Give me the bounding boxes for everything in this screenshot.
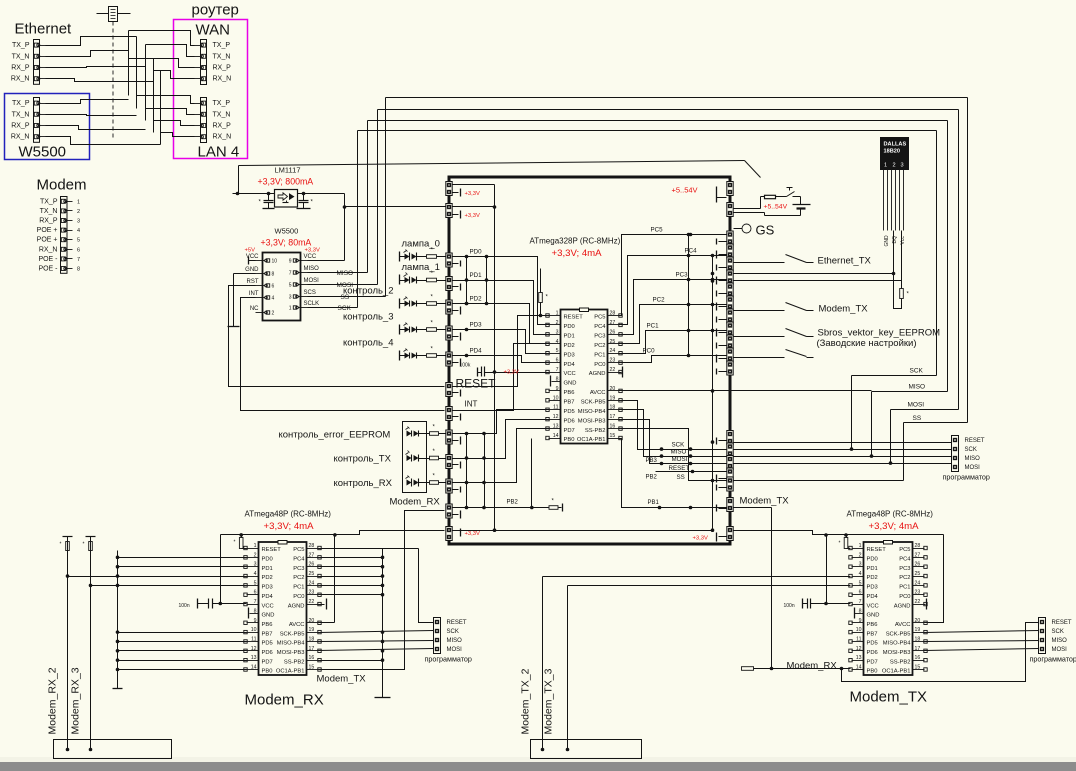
svg-text:+5..54V: +5..54V: [672, 186, 698, 195]
svg-text:2: 2: [556, 320, 559, 326]
svg-text:+5V: +5V: [245, 248, 256, 254]
svg-text:RESET: RESET: [669, 465, 690, 472]
svg-text:RESET: RESET: [564, 315, 584, 321]
svg-text:MISO-PB4: MISO-PB4: [277, 641, 305, 647]
svg-text:+3,3V: +3,3V: [465, 531, 480, 537]
svg-text:GS: GS: [756, 223, 775, 238]
svg-text:12: 12: [856, 646, 862, 652]
svg-text:100k: 100k: [460, 363, 471, 369]
svg-text:INT: INT: [249, 291, 259, 297]
svg-text:18: 18: [915, 636, 921, 642]
svg-text:27: 27: [309, 552, 315, 558]
svg-text:Modem_RX: Modem_RX: [245, 692, 324, 709]
svg-text:RESET: RESET: [447, 620, 467, 626]
svg-text:7: 7: [556, 367, 559, 373]
svg-text:OC1A-PB1: OC1A-PB1: [577, 437, 606, 443]
svg-text:PC2: PC2: [653, 297, 666, 304]
svg-text:PD4: PD4: [262, 594, 274, 600]
svg-text:16: 16: [915, 655, 921, 661]
svg-text:*: *: [60, 542, 62, 548]
svg-text:PD2: PD2: [564, 343, 575, 349]
svg-text:POE -: POE -: [38, 266, 58, 273]
svg-text:PB0: PB0: [867, 669, 878, 675]
svg-text:27: 27: [610, 320, 616, 326]
svg-text:3: 3: [77, 219, 80, 225]
svg-text:5: 5: [77, 238, 80, 244]
svg-text:MOSI: MOSI: [447, 647, 463, 653]
svg-text:GND: GND: [867, 613, 880, 619]
svg-text:14: 14: [553, 433, 559, 439]
svg-text:VCC: VCC: [262, 603, 274, 609]
svg-text:+5..54V: +5..54V: [764, 204, 788, 211]
svg-text:11: 11: [251, 636, 256, 642]
svg-text:RX_N: RX_N: [213, 76, 232, 83]
svg-text:13: 13: [251, 655, 257, 661]
svg-text:SCK-PB5: SCK-PB5: [280, 631, 305, 637]
svg-text:4: 4: [77, 228, 80, 234]
svg-text:AVCC: AVCC: [590, 390, 606, 396]
svg-text:Ethernet: Ethernet: [15, 21, 73, 38]
svg-text:+3,3V; 80mA: +3,3V; 80mA: [261, 238, 312, 248]
svg-text:SCK: SCK: [910, 368, 924, 375]
svg-text:PB0: PB0: [262, 669, 273, 675]
svg-text:RX_P: RX_P: [11, 123, 30, 130]
svg-text:контроль_3: контроль_3: [343, 312, 394, 323]
svg-text:лампа_0: лампа_0: [402, 239, 440, 250]
svg-text:7: 7: [254, 599, 257, 605]
svg-text:AVCC: AVCC: [289, 622, 305, 628]
svg-text:2: 2: [272, 311, 275, 317]
svg-text:контроль_TX: контроль_TX: [334, 454, 392, 465]
svg-text:Modem_RX: Modem_RX: [787, 661, 838, 672]
svg-text:6: 6: [556, 358, 559, 364]
svg-text:ATmega48P (RC-8MHz): ATmega48P (RC-8MHz): [847, 510, 934, 519]
svg-text:26: 26: [610, 329, 616, 335]
svg-text:+3,3V: +3,3V: [504, 370, 519, 376]
svg-text:25: 25: [309, 571, 315, 577]
svg-text:RESET: RESET: [867, 547, 887, 553]
svg-text:17: 17: [915, 646, 921, 652]
svg-text:PD2: PD2: [262, 575, 273, 581]
svg-text:SS-PB2: SS-PB2: [284, 659, 305, 665]
svg-text:AGND: AGND: [288, 603, 305, 609]
svg-text:PD1: PD1: [564, 334, 575, 340]
svg-text:7: 7: [859, 599, 862, 605]
svg-text:8: 8: [254, 608, 257, 614]
svg-text:AGND: AGND: [894, 603, 911, 609]
svg-text:SS-PB2: SS-PB2: [585, 428, 606, 434]
svg-text:12: 12: [553, 414, 559, 420]
svg-text:PC1: PC1: [647, 323, 660, 330]
svg-text:2: 2: [893, 163, 896, 169]
svg-text:100n: 100n: [784, 603, 795, 609]
svg-text:PD4: PD4: [470, 348, 483, 355]
svg-text:SCK-PB5: SCK-PB5: [581, 400, 606, 406]
svg-text:POE -: POE -: [38, 256, 58, 263]
svg-text:SCK: SCK: [965, 447, 977, 453]
svg-text:SCK: SCK: [1052, 629, 1064, 635]
svg-text:TX_N: TX_N: [12, 53, 30, 60]
svg-text:1: 1: [289, 306, 292, 312]
svg-text:PC4: PC4: [293, 557, 305, 563]
svg-text:8: 8: [859, 608, 862, 614]
svg-text:26: 26: [309, 562, 315, 568]
svg-text:23: 23: [610, 358, 616, 364]
svg-text:SS: SS: [913, 415, 922, 422]
svg-text:4: 4: [556, 339, 559, 345]
svg-text:+3,3V; 800mA: +3,3V; 800mA: [258, 177, 314, 187]
svg-text:SCK: SCK: [447, 629, 459, 635]
svg-text:7: 7: [77, 257, 80, 263]
svg-text:PD3: PD3: [564, 352, 575, 358]
svg-text:OC1A-PB1: OC1A-PB1: [276, 669, 305, 675]
svg-text:PD2: PD2: [470, 296, 483, 303]
svg-text:PD6: PD6: [564, 418, 575, 424]
svg-text:PC0: PC0: [643, 348, 656, 355]
svg-text:NC: NC: [250, 306, 259, 312]
svg-text:2: 2: [859, 552, 862, 558]
svg-text:18: 18: [309, 636, 315, 642]
svg-text:*: *: [839, 541, 841, 547]
svg-text:POE +: POE +: [37, 237, 58, 244]
svg-text:PD0: PD0: [564, 324, 575, 330]
svg-text:24: 24: [610, 348, 616, 354]
svg-text:лампа_1: лампа_1: [402, 262, 440, 273]
svg-text:16: 16: [309, 655, 315, 661]
svg-text:контроль_error_EEPROM: контроль_error_EEPROM: [279, 430, 391, 441]
svg-text:MISO: MISO: [304, 266, 320, 272]
svg-text:программатор: программатор: [425, 655, 472, 664]
svg-text:LM1117: LM1117: [275, 166, 301, 175]
svg-text:(Заводские настройки): (Заводские настройки): [817, 338, 917, 349]
svg-text:Sbros_vektor_key_EEPROM: Sbros_vektor_key_EEPROM: [818, 328, 941, 339]
svg-text:PD3: PD3: [470, 322, 483, 329]
svg-text:контроль_RX: контроль_RX: [334, 478, 393, 489]
svg-text:PC1: PC1: [899, 585, 910, 591]
svg-text:SS: SS: [677, 474, 685, 481]
svg-text:ATmega48P (RC-8MHz): ATmega48P (RC-8MHz): [245, 510, 332, 519]
svg-text:PD1: PD1: [867, 566, 878, 572]
svg-text:2: 2: [254, 552, 257, 558]
svg-text:Modem_TX: Modem_TX: [850, 689, 928, 706]
svg-text:SCK-PB5: SCK-PB5: [886, 631, 911, 637]
svg-text:1: 1: [556, 311, 559, 317]
svg-text:15: 15: [610, 433, 616, 439]
svg-text:программатор: программатор: [943, 473, 990, 482]
svg-text:3: 3: [901, 163, 904, 169]
svg-text:1: 1: [884, 163, 887, 169]
svg-text:RX_N: RX_N: [11, 134, 30, 141]
svg-text:PD5: PD5: [262, 641, 273, 647]
svg-text:4: 4: [859, 571, 862, 577]
svg-text:+3,3V; 4mA: +3,3V; 4mA: [552, 248, 603, 259]
svg-text:28: 28: [309, 543, 315, 549]
svg-text:Modem_RX: Modem_RX: [390, 497, 441, 508]
svg-text:PC3: PC3: [676, 272, 689, 279]
svg-text:14: 14: [251, 665, 257, 671]
svg-text:RX_P: RX_P: [213, 65, 232, 72]
svg-text:PD4: PD4: [564, 362, 576, 368]
svg-text:PB7: PB7: [262, 631, 273, 637]
svg-text:10: 10: [272, 259, 278, 265]
svg-text:TX_N: TX_N: [213, 53, 231, 60]
svg-text:OC1A-PB1: OC1A-PB1: [882, 669, 911, 675]
svg-text:RESET: RESET: [456, 377, 497, 391]
svg-text:PD5: PD5: [867, 641, 878, 647]
svg-text:5: 5: [556, 348, 559, 354]
svg-text:RX_P: RX_P: [39, 218, 58, 225]
svg-text:POE +: POE +: [37, 227, 58, 234]
svg-text:PD0: PD0: [470, 249, 483, 256]
svg-text:PB1: PB1: [648, 500, 660, 506]
svg-text:VCC: VCC: [867, 603, 879, 609]
svg-text:22: 22: [309, 599, 315, 605]
svg-text:PB7: PB7: [564, 400, 575, 406]
svg-text:100n: 100n: [179, 603, 190, 609]
svg-text:17: 17: [309, 646, 315, 652]
svg-text:14: 14: [856, 665, 862, 671]
svg-text:3: 3: [859, 562, 862, 568]
svg-text:MISO: MISO: [337, 270, 354, 277]
svg-text:13: 13: [856, 655, 862, 661]
svg-text:23: 23: [309, 590, 315, 596]
svg-text:28: 28: [915, 543, 921, 549]
svg-text:10: 10: [856, 627, 862, 633]
svg-text:9: 9: [289, 259, 292, 265]
svg-text:MISO: MISO: [965, 456, 981, 462]
svg-text:18: 18: [610, 405, 616, 411]
svg-text:PD7: PD7: [262, 659, 273, 665]
svg-text:PB6: PB6: [262, 622, 273, 628]
svg-text:MOSI-PB3: MOSI-PB3: [277, 650, 305, 656]
svg-text:AGND: AGND: [589, 371, 606, 377]
svg-text:TX_P: TX_P: [213, 42, 231, 49]
svg-text:24: 24: [309, 580, 315, 586]
svg-text:3: 3: [254, 562, 257, 568]
svg-text:20: 20: [915, 618, 921, 624]
svg-text:GND: GND: [245, 267, 259, 273]
svg-text:6: 6: [77, 247, 80, 253]
svg-text:PC1: PC1: [293, 585, 304, 591]
svg-text:PD6: PD6: [867, 650, 878, 656]
svg-text:22: 22: [915, 599, 921, 605]
svg-text:+3,3V: +3,3V: [465, 213, 480, 219]
svg-text:MOSI-PB3: MOSI-PB3: [883, 650, 911, 656]
svg-text:PD2: PD2: [867, 575, 878, 581]
svg-text:PC3: PC3: [899, 566, 910, 572]
svg-text:PD7: PD7: [564, 428, 575, 434]
svg-text:22: 22: [610, 367, 616, 373]
svg-text:TX_P: TX_P: [12, 42, 30, 49]
svg-text:PC5: PC5: [651, 227, 664, 234]
svg-text:1: 1: [254, 543, 257, 549]
svg-text:3: 3: [556, 329, 559, 335]
svg-text:7: 7: [289, 271, 292, 277]
svg-text:PC0: PC0: [293, 594, 304, 600]
svg-text:PC0: PC0: [899, 594, 910, 600]
svg-text:PB7: PB7: [867, 631, 878, 637]
svg-text:RESET: RESET: [262, 547, 282, 553]
svg-text:PC0: PC0: [594, 362, 605, 368]
svg-text:ATmega328P (RC-8MHz): ATmega328P (RC-8MHz): [530, 237, 621, 246]
svg-text:TX_P: TX_P: [40, 198, 58, 205]
svg-text:INT: INT: [465, 400, 478, 409]
svg-text:6: 6: [254, 590, 257, 596]
svg-text:TX_P: TX_P: [213, 100, 231, 107]
svg-text:WAN: WAN: [196, 22, 230, 39]
svg-text:4: 4: [254, 571, 257, 577]
svg-text:18B20: 18B20: [884, 149, 900, 155]
svg-text:MOSI: MOSI: [1052, 647, 1068, 653]
svg-text:программатор: программатор: [1030, 655, 1076, 664]
svg-text:PC4: PC4: [594, 324, 606, 330]
svg-text:25: 25: [915, 571, 921, 577]
svg-text:VCC: VCC: [564, 371, 576, 377]
svg-text:6: 6: [272, 284, 275, 290]
svg-text:MOSI: MOSI: [672, 456, 688, 463]
svg-text:9: 9: [254, 618, 257, 624]
svg-text:11: 11: [856, 636, 861, 642]
svg-text:PC5: PC5: [293, 547, 304, 553]
svg-text:26: 26: [915, 562, 921, 568]
svg-text:PD3: PD3: [867, 585, 878, 591]
svg-text:Modem: Modem: [37, 177, 87, 194]
svg-text:GND: GND: [564, 381, 577, 387]
svg-text:PB3: PB3: [646, 458, 658, 464]
svg-text:TX_N: TX_N: [40, 208, 58, 215]
svg-text:19: 19: [915, 627, 921, 633]
svg-text:+3,3V: +3,3V: [693, 536, 708, 542]
svg-text:11: 11: [553, 405, 558, 411]
svg-text:TX_P: TX_P: [12, 100, 30, 107]
svg-text:Modem_TX: Modem_TX: [819, 304, 869, 315]
svg-text:MISO-PB4: MISO-PB4: [883, 641, 911, 647]
svg-text:3: 3: [289, 295, 292, 301]
svg-text:RESET: RESET: [965, 438, 985, 444]
svg-text:RX_P: RX_P: [213, 123, 232, 130]
svg-text:RX_P: RX_P: [11, 65, 30, 72]
svg-text:+3,3V: +3,3V: [465, 191, 480, 197]
svg-text:8: 8: [272, 272, 275, 278]
svg-text:Ethernet_TX: Ethernet_TX: [818, 256, 872, 267]
svg-text:RX_N: RX_N: [39, 246, 58, 253]
svg-text:PC3: PC3: [594, 334, 605, 340]
svg-text:+3,3V; 4mA: +3,3V; 4mA: [869, 521, 920, 532]
svg-text:PC2: PC2: [899, 575, 910, 581]
svg-text:RX_N: RX_N: [11, 76, 30, 83]
svg-text:8: 8: [556, 376, 559, 382]
svg-text:TX_N: TX_N: [213, 111, 231, 118]
svg-text:PB6: PB6: [564, 390, 575, 396]
svg-text:PC1: PC1: [594, 352, 605, 358]
svg-text:роутер: роутер: [192, 2, 239, 19]
svg-text:16: 16: [610, 424, 616, 430]
svg-text:PD0: PD0: [867, 557, 878, 563]
svg-text:17: 17: [610, 414, 616, 420]
svg-text:PD5: PD5: [564, 409, 575, 415]
svg-text:Modem_TX: Modem_TX: [317, 674, 367, 685]
svg-text:PB2: PB2: [507, 500, 519, 506]
svg-text:MOSI: MOSI: [908, 402, 925, 409]
svg-text:5: 5: [289, 283, 292, 289]
svg-text:PC2: PC2: [594, 343, 605, 349]
svg-text:PD7: PD7: [867, 659, 878, 665]
svg-text:24: 24: [915, 580, 921, 586]
svg-text:25: 25: [610, 339, 616, 345]
svg-text:Modem_TX_2: Modem_TX_2: [520, 668, 532, 734]
svg-text:PC4: PC4: [685, 248, 698, 255]
svg-text:4: 4: [272, 296, 275, 302]
svg-text:RESET: RESET: [1052, 620, 1072, 626]
svg-text:VCC: VCC: [246, 254, 259, 260]
svg-text:1: 1: [77, 199, 80, 205]
svg-text:10: 10: [553, 395, 559, 401]
svg-text:28: 28: [610, 311, 616, 317]
svg-text:PD0: PD0: [262, 557, 273, 563]
svg-text:MOSI: MOSI: [965, 465, 981, 471]
svg-text:20: 20: [309, 618, 315, 624]
svg-text:MISO-PB4: MISO-PB4: [578, 409, 606, 415]
svg-text:PC4: PC4: [899, 557, 911, 563]
svg-text:MOSI-PB3: MOSI-PB3: [578, 418, 606, 424]
svg-text:W5500: W5500: [275, 227, 299, 236]
svg-text:15: 15: [915, 665, 921, 671]
svg-text:PC3: PC3: [293, 566, 304, 572]
svg-text:PC5: PC5: [594, 315, 605, 321]
svg-text:SCK: SCK: [672, 442, 686, 449]
svg-text:TX_N: TX_N: [12, 111, 30, 118]
svg-text:PD1: PD1: [470, 272, 483, 279]
svg-text:6: 6: [859, 590, 862, 596]
svg-text:DQ: DQ: [892, 236, 898, 244]
svg-text:LAN 4: LAN 4: [198, 144, 240, 161]
svg-text:контроль_2: контроль_2: [343, 286, 394, 297]
svg-text:19: 19: [610, 395, 616, 401]
svg-text:5: 5: [859, 580, 862, 586]
svg-text:PD4: PD4: [867, 594, 879, 600]
svg-text:8: 8: [77, 267, 80, 273]
svg-text:+3,3V: +3,3V: [305, 248, 320, 254]
svg-text:5: 5: [254, 580, 257, 586]
svg-text:PB0: PB0: [564, 437, 575, 443]
svg-text:Modem_TX: Modem_TX: [740, 496, 790, 507]
svg-text:MISO: MISO: [671, 449, 687, 456]
svg-text:20: 20: [610, 386, 616, 392]
svg-text:MISO: MISO: [447, 638, 463, 644]
svg-text:RX_N: RX_N: [213, 134, 232, 141]
svg-text:SS-PB2: SS-PB2: [890, 659, 911, 665]
svg-text:VCC: VCC: [304, 254, 317, 260]
svg-text:*: *: [234, 540, 236, 546]
svg-text:23: 23: [915, 590, 921, 596]
svg-text:10: 10: [251, 627, 257, 633]
svg-text:SCLK: SCLK: [304, 301, 320, 307]
svg-text:PD1: PD1: [262, 566, 273, 572]
svg-text:1: 1: [859, 543, 862, 549]
svg-text:19: 19: [309, 627, 315, 633]
svg-text:MOSI: MOSI: [304, 278, 320, 284]
svg-text:PB2: PB2: [646, 475, 658, 481]
svg-text:SCS: SCS: [304, 290, 316, 296]
svg-text:контроль_4: контроль_4: [343, 338, 394, 349]
svg-text:RST: RST: [247, 279, 259, 285]
svg-text:Vcc: Vcc: [900, 236, 906, 245]
svg-text:12: 12: [251, 646, 257, 652]
svg-text:PC5: PC5: [899, 547, 910, 553]
svg-text:GND: GND: [884, 235, 890, 247]
svg-text:PD6: PD6: [262, 650, 273, 656]
svg-text:W5500: W5500: [19, 144, 67, 161]
